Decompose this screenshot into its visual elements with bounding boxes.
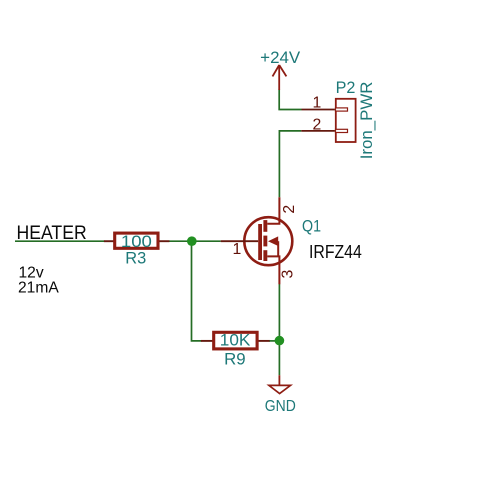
transistor Q1 body <box>244 217 292 265</box>
R3 pin 2 stub <box>158 240 169 242</box>
wire R9 to source junction <box>270 340 280 342</box>
wire +24V to P2 pin 1 <box>279 90 301 110</box>
svg-text:3: 3 <box>280 270 297 279</box>
Q1 channel bar middle <box>263 236 267 247</box>
junction node gate/R9 <box>187 236 197 246</box>
Q1 source path pin 3 <box>267 256 279 284</box>
svg-text:+24V: +24V <box>260 49 300 67</box>
svg-text:2: 2 <box>313 117 322 134</box>
svg-text:1: 1 <box>313 94 322 111</box>
Q1 arrow stem <box>277 241 279 256</box>
Q1 body diode arrow <box>268 236 278 246</box>
resistor R3 <box>115 233 158 248</box>
svg-text:P2: P2 <box>336 79 356 97</box>
power symbol +24V arrow <box>273 65 287 90</box>
svg-text:IRFZ44: IRFZ44 <box>309 242 362 262</box>
Q1 gate pin <box>221 240 259 242</box>
connector P2 body <box>336 99 356 142</box>
R3 pin 1 stub <box>104 240 115 242</box>
svg-text:Q1: Q1 <box>302 218 321 236</box>
svg-text:Iron_PWR: Iron_PWR <box>358 81 376 159</box>
svg-text:GND: GND <box>265 398 296 415</box>
svg-text:100: 100 <box>121 232 152 251</box>
R9 pin 2 stub <box>257 340 270 342</box>
wire HEATER net to R3 <box>15 240 105 242</box>
svg-text:21mA: 21mA <box>18 280 59 297</box>
Q1 drain path pin 2 <box>267 197 279 224</box>
svg-text:1: 1 <box>233 241 242 258</box>
wire junction down to R9 <box>192 241 202 341</box>
svg-text:HEATER: HEATER <box>17 222 87 244</box>
svg-text:10K: 10K <box>220 331 251 350</box>
wire R3 to Q1 gate <box>169 240 221 242</box>
P2 pin 1 <box>302 94 348 111</box>
P2 pin 2 <box>301 117 347 134</box>
Q1 channel bar bottom <box>263 250 267 261</box>
svg-text:R9: R9 <box>224 349 246 368</box>
svg-text:R3: R3 <box>125 250 146 268</box>
junction node source/R9 <box>275 336 285 346</box>
Q1 gate bar <box>258 224 262 260</box>
svg-text:2: 2 <box>281 205 298 214</box>
wire P2 pin 2 to Q1 drain <box>279 131 301 197</box>
ground symbol <box>269 375 291 393</box>
wire Q1 source down to GND <box>278 284 280 375</box>
resistor R9 <box>214 332 257 349</box>
R9 pin 1 stub <box>201 340 214 342</box>
Q1 channel bar top <box>263 220 267 232</box>
